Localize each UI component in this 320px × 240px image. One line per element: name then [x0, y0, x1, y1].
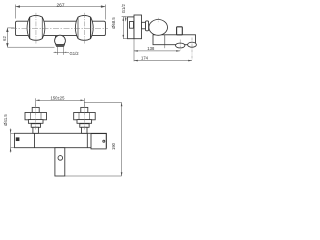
svg-text:Ø41.5: Ø41.5 [3, 114, 8, 126]
svg-text:G1/2: G1/2 [121, 3, 126, 13]
svg-text:190: 190 [111, 142, 116, 150]
svg-text:174: 174 [141, 56, 149, 61]
svg-text:138: 138 [147, 46, 155, 51]
svg-text:G1/2: G1/2 [70, 51, 80, 56]
svg-text:62: 62 [2, 36, 7, 41]
svg-text:267: 267 [56, 2, 64, 8]
svg-text:Ø68.5: Ø68.5 [111, 17, 116, 29]
svg-text:150±25: 150±25 [51, 96, 66, 101]
